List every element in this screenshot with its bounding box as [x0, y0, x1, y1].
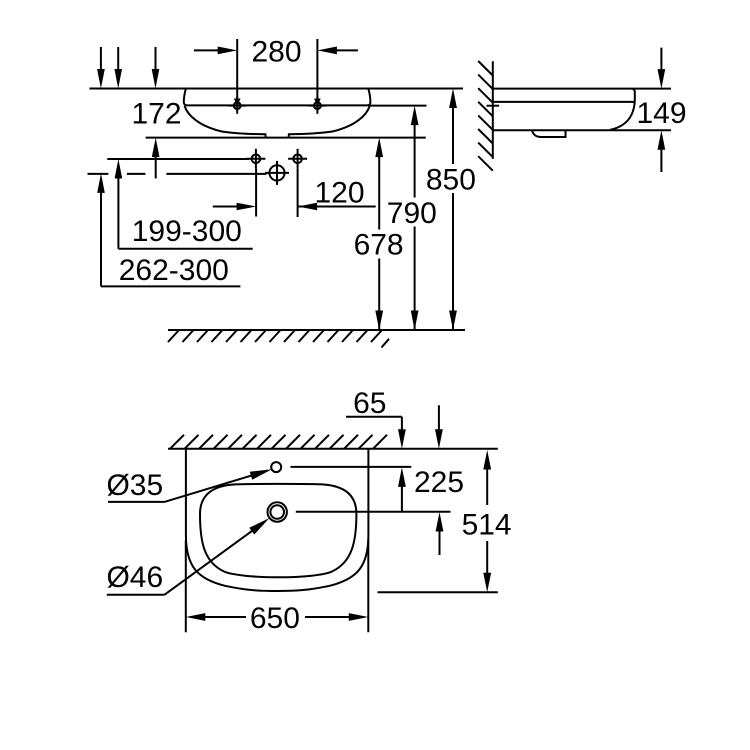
svg-text:172: 172 [131, 98, 181, 131]
svg-text:650: 650 [250, 602, 300, 635]
svg-text:120: 120 [314, 177, 364, 210]
svg-text:149: 149 [636, 97, 686, 130]
svg-text:514: 514 [462, 509, 512, 542]
svg-text:225: 225 [414, 466, 464, 499]
svg-text:Ø46: Ø46 [106, 561, 163, 594]
svg-text:850: 850 [426, 164, 476, 197]
svg-text:Ø35: Ø35 [106, 469, 163, 502]
svg-text:199-300: 199-300 [132, 215, 242, 248]
svg-text:280: 280 [251, 36, 301, 69]
svg-text:790: 790 [387, 197, 437, 230]
svg-text:65: 65 [353, 387, 386, 420]
svg-text:262-300: 262-300 [119, 254, 229, 287]
svg-text:678: 678 [354, 229, 404, 262]
